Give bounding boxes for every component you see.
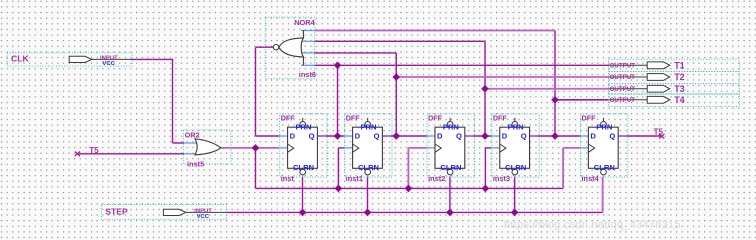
flip-flop DFF3 Q output stub <box>465 135 474 137</box>
svg-text:PRN: PRN <box>295 123 311 132</box>
junction DFF2 Q output <box>392 132 400 140</box>
svg-text:CLRN: CLRN <box>505 163 526 172</box>
svg-text:DFF: DFF <box>428 114 443 123</box>
svg-text:inst2: inst2 <box>428 174 445 183</box>
svg-text:Q: Q <box>374 131 380 140</box>
output pin T3 selection box <box>609 84 740 94</box>
wire clock-bus drop from OR2 output junction <box>255 148 257 189</box>
junction clock bus to DFF3 <box>405 185 413 193</box>
wire CLK into OR2 top input <box>173 142 185 144</box>
svg-text:T1: T1 <box>674 60 685 70</box>
wire CLRN feed DFF2 <box>367 177 369 212</box>
svg-text:STEP: STEP <box>105 207 128 217</box>
svg-text:OUTPUT: OUTPUT <box>610 86 636 93</box>
flip-flop DFF1 (inst) selection box <box>280 114 327 177</box>
flip-flop DFF3 clock triangle <box>435 144 441 152</box>
svg-text:PRN: PRN <box>508 123 524 132</box>
svg-text:CLRN: CLRN <box>594 163 615 172</box>
svg-text:PRN: PRN <box>443 123 459 132</box>
svg-text:OR2: OR2 <box>185 130 200 139</box>
output pin T2 selection box <box>609 72 740 84</box>
wire CLRN feed DFF4 <box>514 177 516 212</box>
output pin T2 symbol <box>647 74 670 81</box>
flip-flop DFF2 clock input stub <box>344 147 353 149</box>
svg-text:DFF: DFF <box>493 114 508 123</box>
output pin T1 symbol <box>647 62 670 69</box>
svg-text:inst6: inst6 <box>299 70 316 79</box>
svg-text:D: D <box>502 131 508 140</box>
wire T2 junction down to DFF2 Q <box>395 77 397 136</box>
svg-text:CLRN: CLRN <box>358 163 379 172</box>
junction STEP bus to DFF1 CLRN <box>299 209 307 217</box>
flip-flop DFF5 clock triangle <box>588 144 594 152</box>
flip-flop DFF3 CLRN stub <box>449 175 451 178</box>
flip-flop DFF4 clock triangle <box>500 144 506 152</box>
svg-text:inst1: inst1 <box>346 174 363 183</box>
output pin T2 lead line <box>609 76 648 78</box>
or-gate OR2 body <box>195 139 221 155</box>
svg-text:DFF: DFF <box>346 114 361 123</box>
svg-text:https://blog.csdn.net/qq_43478: https://blog.csdn.net/qq_43478315 <box>504 219 681 231</box>
junction STEP bus to DFF4 CLRN <box>511 209 519 217</box>
input pin STEP selection box <box>102 205 227 220</box>
junction DFF4 Q output <box>551 132 559 140</box>
svg-text:VCC: VCC <box>197 214 210 220</box>
wire clock feed DFF3 <box>407 148 409 189</box>
wire clock feed DFF2 <box>337 148 339 189</box>
flip-flop DFF3 clock input stub <box>426 147 435 149</box>
wire DFF1 Q to DFF2 D <box>317 135 344 137</box>
flip-flop DFF2 (inst1) selection box <box>345 114 392 177</box>
svg-text:D: D <box>437 131 443 140</box>
flip-flop DFF4 PRN stub <box>514 118 516 122</box>
flip-flop DFF4 PRN bubble <box>512 122 518 128</box>
flip-flop DFF2 CLRN stub <box>367 175 369 178</box>
svg-text:inst5: inst5 <box>187 159 204 168</box>
wire T3 junction down to DFF3 Q <box>484 89 486 136</box>
wire NOR4 input row 2 <box>314 40 485 42</box>
svg-text:T2: T2 <box>674 72 685 82</box>
nor-gate NOR4 inst6 selection box <box>265 17 315 79</box>
nor-gate NOR4 body (mirrored) <box>302 30 304 38</box>
junction clock bus to DFF2 <box>335 185 343 193</box>
svg-text:Q: Q <box>456 131 462 140</box>
wire NOR4 output to DFF1 D input <box>256 135 280 137</box>
flip-flop DFF1 PRN stub <box>302 118 304 122</box>
input pin CLK symbol <box>69 56 92 62</box>
svg-text:T4: T4 <box>674 95 685 105</box>
flip-flop DFF1 CLRN stub <box>302 175 304 178</box>
nor-gate NOR4 output stub to wire <box>256 46 274 48</box>
svg-text:VCC: VCC <box>102 61 115 67</box>
output pin T1 selection box <box>609 59 740 71</box>
junction net T1 at output row <box>334 62 342 70</box>
flip-flop DFF5 Q output stub <box>618 135 627 137</box>
wire clock bus horizontal <box>256 187 564 189</box>
wire NOR4 input row 1 drop to T4 junction <box>554 31 556 100</box>
svg-text:inst: inst <box>281 174 295 183</box>
svg-text:Q: Q <box>309 131 315 140</box>
flip-flop DFF4 CLRN stub <box>514 175 516 178</box>
svg-text:NOR4: NOR4 <box>294 18 315 27</box>
wire OR2 output to junction <box>221 147 256 149</box>
wire DFF5 Q to net T5 stub <box>618 135 662 137</box>
flip-flop DFF5 CLRN stub <box>603 175 605 178</box>
wire CLK vertical drop to OR2 top input <box>172 59 174 143</box>
flip-flop DFF1 Q output stub <box>317 135 326 137</box>
wire NOR4 input row 3 <box>314 52 396 54</box>
flip-flop DFF2 PRN stub <box>367 118 369 122</box>
input pin CLK selection box <box>7 53 132 66</box>
flip-flop DFF3 PRN bubble <box>447 122 453 128</box>
wire NOR4 input row 1 <box>314 30 555 32</box>
svg-text:PRN: PRN <box>360 123 376 132</box>
output pin T4 lead line <box>609 99 648 101</box>
wire clock feed DFF4 <box>484 148 486 189</box>
wire DFF4 Q to DFF5 D <box>529 135 580 137</box>
flip-flop DFF4 D input stub <box>491 135 500 137</box>
junction net T4 at output row <box>551 96 559 104</box>
nor-gate NOR4 input stubs <box>301 30 314 32</box>
nor-gate NOR4 output bubble <box>273 45 278 50</box>
svg-text:DFF: DFF <box>582 114 597 123</box>
svg-text:DFF: DFF <box>281 114 296 123</box>
wire DFF2 Q to DFF3 D <box>382 135 427 137</box>
svg-text:inst3: inst3 <box>493 174 510 183</box>
wire T5 from X marker to OR2 bottom input <box>79 153 184 155</box>
flip-flop DFF1 PRN bubble <box>300 122 306 128</box>
wire NOR4 input row 4 / net T1 to output pin <box>314 64 608 66</box>
junction STEP bus to DFF3 CLRN <box>446 209 454 217</box>
wire NOR4 output down <box>255 47 257 136</box>
flip-flop DFF5 PRN stub <box>603 118 605 122</box>
flip-flop DFF3 D input stub <box>426 135 435 137</box>
wire net T3 to output pin <box>485 88 609 90</box>
svg-text:Q: Q <box>521 131 527 140</box>
svg-text:OUTPUT: OUTPUT <box>610 63 636 70</box>
wire CLRN feed DFF3 <box>449 177 451 212</box>
flip-flop DFF2 D input stub <box>344 135 353 137</box>
or-gate OR2 inst5 selection box <box>183 130 231 164</box>
output pin T3 symbol <box>647 85 670 92</box>
wire net T4 to output pin <box>555 99 609 101</box>
flip-flop DFF4 clock input stub <box>491 147 500 149</box>
flip-flop DFF4 Q output stub <box>530 135 539 137</box>
flip-flop DFF2 Q output stub <box>382 135 391 137</box>
flip-flop DFF2 PRN bubble <box>365 122 371 128</box>
junction DFF3 Q output <box>481 132 489 140</box>
svg-text:D: D <box>355 131 361 140</box>
flip-flop DFF1 clock triangle <box>288 144 294 152</box>
wire junction to DFF1 clock <box>256 147 280 149</box>
input pin STEP symbol <box>163 209 186 215</box>
flip-flop DFF1 D input stub <box>279 135 288 137</box>
wire DFF3 Q to DFF4 D <box>465 135 492 137</box>
flip-flop DFF3 CLRN bubble <box>447 169 453 175</box>
flip-flop DFF4 CLRN bubble <box>512 169 518 175</box>
flip-flop DFF4 (inst3) selection box <box>492 114 539 177</box>
dangling X marker at DFF5 Q output <box>659 134 664 139</box>
output pin T4 selection box <box>609 94 740 107</box>
svg-text:Q: Q <box>609 131 615 140</box>
wire STEP bus horizontal <box>227 211 603 213</box>
flip-flop DFF2 body <box>353 127 383 168</box>
flip-flop DFF3 body <box>435 127 465 168</box>
junction DFF1 Q output <box>334 132 342 140</box>
junction clock bus to DFF4 <box>482 185 490 193</box>
wire T4 junction down to DFF4 Q <box>554 100 556 136</box>
output pin T3 lead line <box>609 88 648 90</box>
wire T1 junction down to DFF1 Q <box>337 65 339 136</box>
flip-flop DFF1 CLRN bubble <box>300 169 306 175</box>
flip-flop DFF2 clock triangle <box>353 144 359 152</box>
flip-flop DFF3 (inst2) selection box <box>427 114 474 177</box>
wire STEP bus end up to DFF5 CLRN <box>602 177 604 212</box>
output pin T4 symbol <box>647 96 670 103</box>
flip-flop DFF1 clock input stub <box>279 147 288 149</box>
flip-flop DFF4 body <box>500 127 530 168</box>
flip-flop DFF5 body <box>588 127 618 168</box>
svg-text:T5: T5 <box>89 146 99 155</box>
flip-flop DFF2 CLRN bubble <box>365 169 371 175</box>
flip-flop DFF5 D input stub <box>580 135 589 137</box>
wire CLRN feed DFF1 <box>302 177 304 212</box>
svg-text:D: D <box>290 131 296 140</box>
flip-flop DFF5 CLRN bubble <box>601 169 607 175</box>
flip-flop DFF5 PRN bubble <box>601 122 607 128</box>
junction STEP bus to DFF2 CLRN <box>364 209 372 217</box>
svg-text:PRN: PRN <box>596 123 612 132</box>
wire clock feed DFF5 (bus end up) <box>562 148 564 189</box>
dangling X marker at OR2 T5 input <box>75 151 80 156</box>
junction OR2 output / clock net <box>252 144 260 152</box>
flip-flop DFF5 clock input stub <box>580 147 589 149</box>
svg-text:T5: T5 <box>654 127 664 136</box>
wire net T2 to output pin <box>396 76 608 78</box>
flip-flop DFF3 PRN stub <box>449 118 451 122</box>
wire NOR4 input row 2 drop to T3 junction <box>484 41 486 88</box>
wire NOR4 input row 3 drop to T2 junction <box>395 53 397 77</box>
svg-text:T3: T3 <box>674 84 685 94</box>
svg-text:D: D <box>590 131 596 140</box>
svg-text:CLRN: CLRN <box>293 163 314 172</box>
or-gate OR2 input stubs <box>184 142 199 144</box>
svg-text:OUTPUT: OUTPUT <box>610 97 636 104</box>
svg-text:CLRN: CLRN <box>440 163 461 172</box>
svg-text:CLK: CLK <box>11 53 29 63</box>
junction net T2 at output row <box>392 73 400 81</box>
svg-text:OUTPUT: OUTPUT <box>610 74 636 81</box>
output pin T1 lead line <box>609 64 648 66</box>
svg-text:inst4: inst4 <box>582 174 600 183</box>
flip-flop DFF5 (inst4) selection box <box>581 114 628 177</box>
wire CLK: pin to vertical drop <box>132 58 174 60</box>
junction net T3 at output row <box>481 85 489 93</box>
flip-flop DFF1 body <box>288 127 318 168</box>
